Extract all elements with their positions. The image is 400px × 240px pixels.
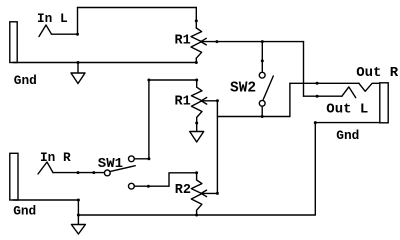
svg-text:Out L: Out L — [326, 102, 368, 118]
svg-text:Gnd: Gnd — [13, 204, 36, 219]
junction dot R1 lower wiper — [216, 99, 219, 102]
R2 wiper arrow — [201, 190, 207, 197]
junction dot out sleeve corner — [314, 121, 317, 124]
wire top rail to R1 — [78, 7, 197, 9]
wire R1 top wiper down to Out L — [303, 42, 305, 97]
svg-text:R1: R1 — [175, 34, 191, 49]
jack J2 In R sleeve body — [10, 153, 18, 200]
svg-text:R2: R2 — [175, 183, 191, 198]
resistor R1 (lower potentiometer) top wire — [149, 79, 197, 81]
resistor R1 bottom lead — [195, 58, 197, 62]
junction dot SW1 bottom wire — [147, 185, 150, 188]
switch SW2 bottom contact — [259, 100, 265, 106]
switch SW2 lever — [263, 76, 273, 99]
junction dot SW1 top wire — [147, 157, 150, 160]
junction dot bottom rail left — [77, 214, 80, 217]
ground symbol below R1 lower — [196, 123, 198, 132]
jack J3 output sleeve body — [380, 83, 388, 123]
wire R1 wiper to right — [201, 41, 304, 43]
junction dot Out R wire — [316, 82, 319, 85]
svg-text:In R: In R — [40, 150, 71, 165]
wire vertical up from In L tip — [77, 8, 79, 35]
junction dot R1 bottom — [195, 61, 198, 64]
R1 wiper arrow — [201, 38, 207, 45]
pin dot R1 top — [195, 19, 198, 22]
junction dot ground In L — [77, 61, 80, 64]
wire Out R horizontal — [290, 82, 359, 84]
wire riser up to R1 lower top — [148, 80, 150, 159]
wire SW2 bottom pin — [261, 106, 263, 116]
junction dot on wiper wire — [215, 40, 218, 43]
junction dot R2 top — [195, 171, 198, 174]
svg-text:Out R: Out R — [356, 65, 399, 81]
resistor R1 lower zigzag — [191, 80, 202, 123]
wire SW1 bottom contact — [134, 185, 169, 187]
wire SW2 top pin — [261, 42, 263, 72]
wire riser to Out R — [289, 83, 291, 116]
switch SW1 bottom contact — [129, 183, 135, 189]
switch SW1 top contact — [129, 156, 135, 162]
wire SW1 top contact to riser — [134, 158, 149, 160]
svg-text:Gnd: Gnd — [336, 128, 359, 143]
wire R1 lower wiper — [201, 100, 217, 102]
junction dot In R sleeve corner — [77, 199, 80, 202]
wire In R tip to SW1 — [53, 172, 104, 174]
junction dot on In R wire 2 — [92, 171, 95, 174]
wire out sleeve down to bottom rail — [314, 123, 316, 215]
resistor R1 (top potentiometer) zigzag — [191, 28, 202, 58]
wire step up to R2 top — [169, 173, 197, 186]
jack J2 tip contact — [38, 162, 53, 174]
R1 lower wiper arrow — [201, 98, 207, 105]
svg-text:In L: In L — [37, 11, 68, 26]
pin dot SW2 top — [261, 59, 264, 62]
wire In R sleeve — [13, 199, 78, 201]
switch SW1 lever — [110, 166, 135, 172]
wire wiper bus down to R2 wiper — [216, 101, 218, 194]
wire bottom ground rail — [78, 214, 315, 216]
svg-text:SW2: SW2 — [230, 81, 256, 97]
jack J3 Out R tip contact (V) — [359, 83, 380, 91]
resistor R2 zigzag — [191, 173, 202, 215]
junction dot SW2 branch — [261, 40, 264, 43]
svg-text:Gnd: Gnd — [14, 73, 37, 88]
junction dot R2 bottom — [195, 214, 198, 217]
junction dot SW2 bottom — [261, 115, 264, 118]
ground symbol below In L wire — [77, 63, 79, 74]
junction dot on In R wire 1 — [77, 171, 80, 174]
jack J3 Out L ring contact (caret) — [342, 87, 356, 98]
junction dot Out L wire — [316, 95, 319, 98]
switch SW1 common contact — [104, 170, 110, 176]
wire In R sleeve down — [77, 200, 79, 215]
junction dot R2 wiper — [216, 192, 219, 195]
wire In L tip to node — [52, 33, 78, 35]
wire down to R1 top — [195, 8, 197, 29]
junction dot corner — [147, 79, 150, 82]
svg-text:R1: R1 — [175, 95, 191, 110]
wire R2 wiper — [201, 192, 217, 194]
junction dot R1 lower bottom — [195, 122, 198, 125]
wire out jack sleeve — [315, 122, 380, 124]
junction dot R1 lower top — [195, 79, 198, 82]
wire Out L horizontal — [304, 95, 342, 97]
jack J1 tip contact — [39, 25, 52, 37]
junction dot In L tip node — [76, 33, 79, 36]
jack J1 In L sleeve body — [10, 22, 17, 63]
wire In L ground rail — [13, 62, 196, 64]
ground symbol below bottom rail — [77, 215, 79, 225]
wire R1 lower branch to Out R riser — [217, 116, 290, 118]
switch SW2 top contact — [259, 72, 265, 78]
